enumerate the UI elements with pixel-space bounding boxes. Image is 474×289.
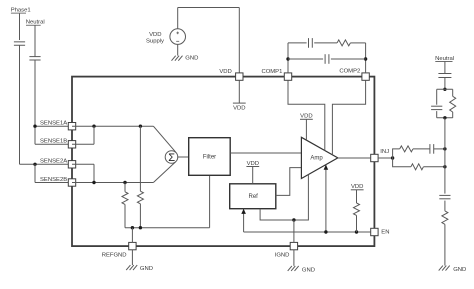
svg-text:GND: GND	[453, 267, 466, 273]
svg-text:VDD: VDD	[247, 161, 259, 167]
svg-text:EN: EN	[381, 230, 389, 236]
svg-text:Σ: Σ	[168, 152, 175, 164]
svg-text:Supply: Supply	[146, 38, 164, 44]
svg-text:SENSE2A: SENSE2A	[40, 159, 67, 165]
svg-text:Amp: Amp	[310, 156, 323, 162]
svg-text:INJ: INJ	[380, 149, 389, 155]
svg-text:IGND: IGND	[275, 252, 290, 258]
svg-text:Phase1: Phase1	[11, 8, 31, 14]
svg-text:SENSE1B: SENSE1B	[40, 139, 67, 145]
svg-text:SENSE1A: SENSE1A	[40, 120, 67, 126]
svg-text:VDD: VDD	[300, 114, 312, 120]
svg-text:GND: GND	[302, 267, 315, 273]
svg-text:VDD: VDD	[149, 32, 161, 38]
svg-text:VDD: VDD	[351, 184, 363, 190]
svg-text:COMP2: COMP2	[339, 69, 360, 75]
svg-text:REFGND: REFGND	[102, 253, 127, 259]
svg-text:VDD: VDD	[219, 69, 231, 75]
svg-text:GND: GND	[140, 266, 153, 272]
svg-text:Filter: Filter	[203, 154, 216, 160]
svg-text:Ref: Ref	[249, 194, 259, 200]
svg-text:VDD: VDD	[233, 105, 245, 111]
svg-text:SENSE2B: SENSE2B	[40, 177, 67, 183]
svg-text:Neutral: Neutral	[26, 20, 45, 26]
svg-text:GND: GND	[185, 56, 198, 62]
svg-text:COMP1: COMP1	[261, 69, 282, 75]
